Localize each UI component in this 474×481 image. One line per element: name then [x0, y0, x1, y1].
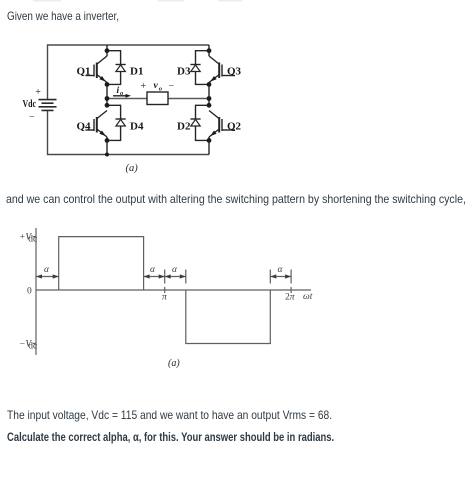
svg-text:π: π	[162, 293, 167, 303]
svg-text:−: −	[169, 81, 175, 92]
svg-text:Q3: Q3	[227, 65, 242, 77]
svg-text:D4: D4	[130, 121, 144, 133]
svg-text:2π: 2π	[285, 293, 295, 303]
svg-text:Q2: Q2	[227, 120, 242, 132]
svg-text:+: +	[35, 87, 41, 98]
svg-text:α: α	[150, 265, 156, 275]
svg-text:v: v	[154, 81, 159, 91]
svg-text:D1: D1	[130, 66, 143, 78]
svg-text:Q4: Q4	[77, 121, 92, 133]
svg-text:α: α	[278, 265, 284, 275]
svg-text:dc: dc	[28, 342, 37, 352]
svg-text:ωt: ωt	[303, 292, 313, 302]
svg-text:(a): (a)	[126, 163, 139, 174]
svg-text:(a): (a)	[168, 358, 180, 369]
svg-text:+: +	[141, 81, 147, 92]
svg-text:dc: dc	[28, 235, 37, 245]
svg-text:Vdc: Vdc	[23, 98, 37, 110]
svg-text:α: α	[44, 265, 50, 275]
svg-text:D2: D2	[177, 121, 191, 133]
svg-text:0: 0	[27, 287, 32, 297]
svg-text:−: −	[29, 112, 35, 123]
svg-text:α: α	[172, 265, 178, 275]
svg-text:D3: D3	[177, 66, 191, 78]
svg-text:Q1: Q1	[77, 66, 91, 78]
